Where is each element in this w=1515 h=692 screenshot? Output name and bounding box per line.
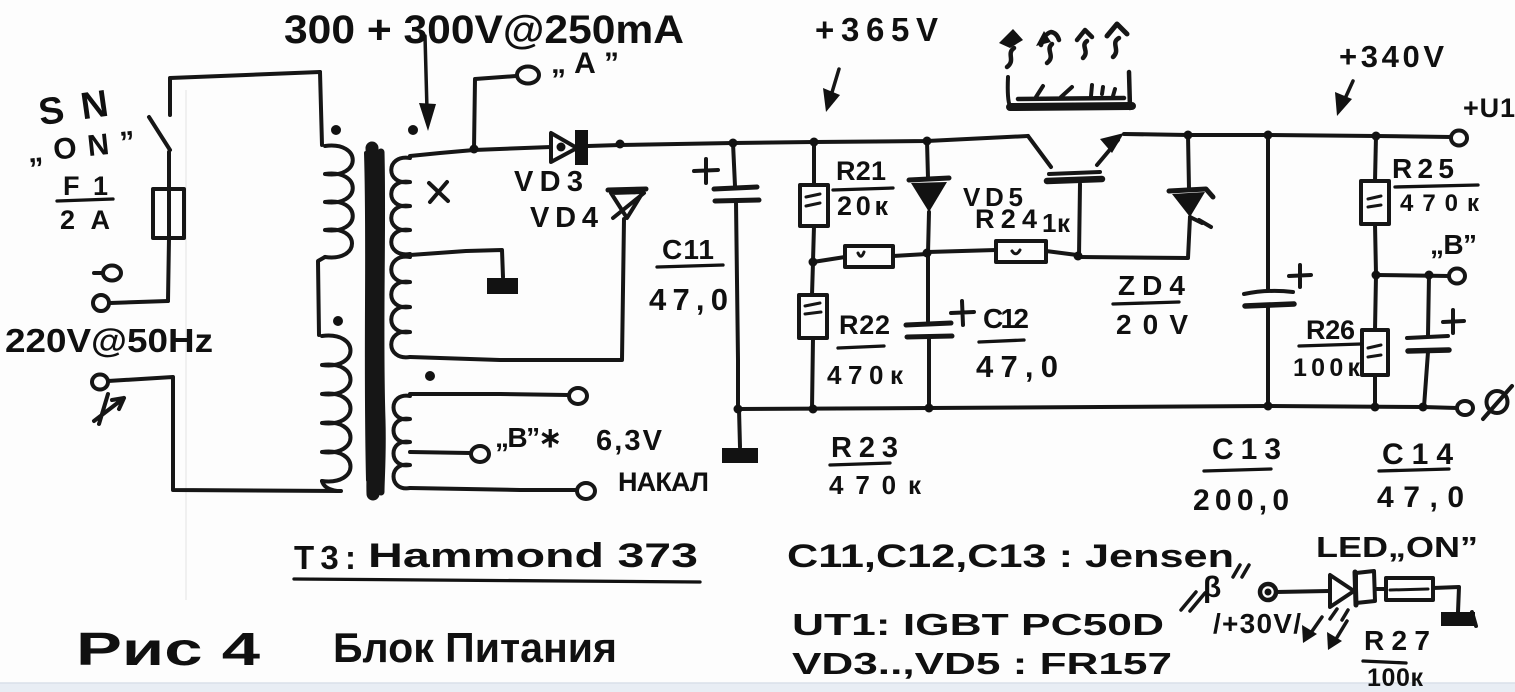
- svg-text:200,0: 200,0: [1193, 484, 1289, 517]
- svg-text:+U1: +U1: [1463, 93, 1515, 123]
- svg-text:ZD4: ZD4: [1118, 270, 1185, 301]
- svg-text:„B”: „B”: [1430, 229, 1477, 260]
- svg-text:300 + 300V@250mA: 300 + 300V@250mA: [284, 8, 684, 52]
- svg-text:20V: 20V: [1116, 309, 1188, 340]
- svg-text:6,3V: 6,3V: [596, 425, 663, 457]
- svg-text:T3:: T3:: [294, 539, 356, 576]
- svg-text:„B”∗: „B”∗: [495, 422, 562, 453]
- svg-text:C11,C12,C13 : Jensen: C11,C12,C13 : Jensen: [787, 538, 1234, 574]
- svg-text:R24: R24: [975, 204, 1037, 234]
- svg-text:VD3..,VD5 : FR157: VD3..,VD5 : FR157: [792, 646, 1172, 681]
- svg-text:Hammond 373: Hammond 373: [368, 537, 698, 575]
- svg-text:R27: R27: [1364, 625, 1430, 656]
- svg-text:/+30V/: /+30V/: [1213, 608, 1301, 639]
- svg-text:220V@50Hz: 220V@50Hz: [5, 322, 213, 359]
- svg-text:C11: C11: [662, 234, 714, 265]
- svg-text:Блок Питания: Блок Питания: [333, 624, 617, 671]
- svg-text:R26: R26: [1306, 315, 1355, 345]
- svg-text:+340V: +340V: [1339, 39, 1444, 74]
- svg-text:R21: R21: [836, 156, 886, 186]
- svg-text:R25: R25: [1392, 153, 1454, 184]
- svg-text:C14: C14: [1382, 438, 1453, 471]
- svg-text:НАКАЛ: НАКАЛ: [618, 467, 709, 497]
- svg-text:VD4: VD4: [530, 202, 598, 234]
- svg-text:β: β: [1203, 571, 1221, 604]
- svg-text:LED„ON”: LED„ON”: [1316, 532, 1478, 564]
- svg-text:47,0: 47,0: [976, 349, 1058, 384]
- svg-text:R23: R23: [831, 432, 898, 464]
- svg-text:C13: C13: [1212, 433, 1281, 466]
- svg-text:„A”: „A”: [551, 47, 619, 80]
- svg-text:R22: R22: [839, 310, 890, 340]
- svg-text:C12: C12: [983, 303, 1029, 334]
- svg-text:20к: 20к: [837, 191, 888, 221]
- svg-text:1к: 1к: [1042, 208, 1071, 238]
- svg-text:VD3: VD3: [514, 166, 583, 198]
- svg-text:Рис 4: Рис 4: [76, 623, 261, 675]
- svg-text:UT1: IGBT PC50D: UT1: IGBT PC50D: [792, 607, 1164, 642]
- svg-text:100к: 100к: [1367, 664, 1423, 692]
- svg-text:+365V: +365V: [815, 11, 938, 48]
- svg-text:47,0: 47,0: [649, 282, 728, 317]
